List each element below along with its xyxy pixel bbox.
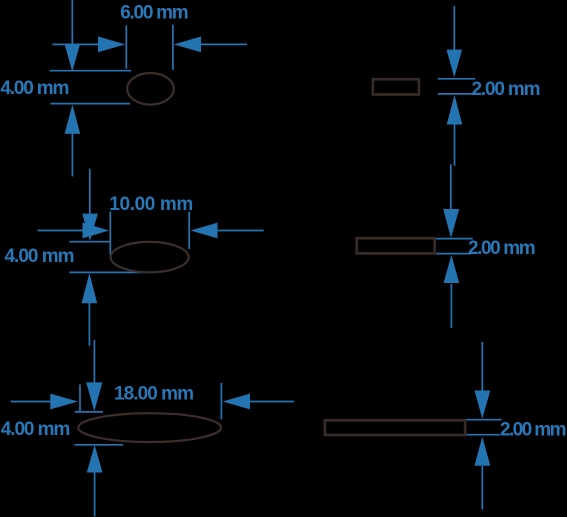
- wire: rect1 2mm bottom extension line: [438, 93, 473, 95]
- wire: row3 18mm dim right tail: [250, 401, 294, 403]
- wire: row1 6mm dim left tail: [53, 43, 99, 45]
- arrow: row2 4mm up arrow: [82, 273, 98, 303]
- rectangle 18mm x 2mm: [325, 420, 465, 435]
- svg-text:2.00 mm: 2.00 mm: [500, 420, 567, 441]
- arrow: row3 18mm left arrowhead: [50, 394, 78, 410]
- wire: row1 6mm right extension line: [172, 25, 174, 70]
- wire: rect2 chain vertical top: [450, 164, 452, 209]
- wire: rect2 2mm bottom extension line: [436, 253, 471, 255]
- rectangle 10mm x 2mm: [357, 238, 435, 253]
- wire: rect1 chain vertical top: [453, 6, 455, 50]
- wire: row3 18mm dim left tail: [11, 401, 51, 403]
- wire: rect1 2mm top extension line: [438, 78, 475, 80]
- arrow: rect2 2mm up arrow: [444, 255, 460, 283]
- arrow: row3 18mm right arrowhead: [223, 394, 250, 410]
- arrow: row1 4mm up arrow: [65, 105, 81, 134]
- ellipse 10mm x 4mm: [111, 242, 189, 272]
- arrow: row2 chain down arrow: [82, 214, 98, 241]
- wire: rect1 chain vertical bottom: [454, 124, 456, 166]
- svg-text:4.00 mm: 4.00 mm: [5, 246, 75, 267]
- arrow: row3 chain down arrow: [86, 382, 102, 411]
- wire: rect2 chain vertical bottom: [450, 284, 452, 328]
- wire: row1 chain vertical top: [71, 0, 73, 44]
- rectangle 6mm x 2mm: [373, 79, 419, 94]
- wire: rect3 2mm top extension line: [466, 419, 501, 421]
- arrow: row1 6mm left arrowhead: [98, 37, 125, 53]
- wire: rect2 2mm top extension line: [436, 238, 473, 240]
- wire: rect3 2mm bottom extension line: [466, 434, 500, 436]
- arrow: row3 4mm up arrow: [87, 445, 103, 473]
- svg-text:4.00 mm: 4.00 mm: [1, 419, 71, 440]
- wire: row3 chain vertical top: [93, 340, 95, 383]
- wire: row3 chain vertical bottom: [94, 473, 96, 517]
- wire: row1 chain vertical bottom: [71, 134, 73, 177]
- arrow: rect2 chain down arrow: [443, 209, 459, 238]
- ellipse 18mm x 4mm: [78, 413, 221, 442]
- wire: row2 10mm dim left tail: [38, 230, 83, 232]
- arrow: rect3 2mm up arrow: [475, 437, 491, 466]
- arrow: row1 chain down arrow: [65, 44, 81, 72]
- wire: row2 10mm dim right tail: [218, 230, 264, 232]
- wire: row2 10mm right extension line: [188, 212, 190, 250]
- wire: row2 chain vertical top: [89, 169, 91, 214]
- arrow: rect3 chain down arrow: [475, 391, 491, 419]
- wire: row2 10mm left extension line: [109, 212, 111, 256]
- wire: rect3 chain vertical bottom: [481, 466, 483, 510]
- arrow: rect1 2mm up arrow: [447, 95, 463, 125]
- arrow: row1 6mm right arrowhead: [174, 37, 201, 53]
- wire: row2 chain vertical bottom: [88, 303, 90, 346]
- wire: row1 6mm left extension line: [125, 25, 127, 68]
- svg-text:6.00 mm: 6.00 mm: [120, 3, 189, 24]
- wire: row1 6mm dim right tail: [201, 43, 247, 45]
- wire: row1 4mm bottom extension line: [51, 103, 131, 105]
- wire: row3 4mm bottom extension line: [74, 444, 123, 446]
- svg-text:18.00 mm: 18.00 mm: [114, 384, 194, 405]
- wire: row1 4mm top extension line: [50, 70, 132, 72]
- svg-text:4.00 mm: 4.00 mm: [0, 78, 69, 99]
- arrow: row2 10mm left arrowhead: [83, 223, 110, 239]
- svg-text:2.00 mm: 2.00 mm: [472, 79, 541, 100]
- wire: rect3 chain vertical top: [481, 342, 483, 391]
- wire: row2 4mm bottom extension line: [69, 271, 147, 273]
- arrow: row2 10mm right arrowhead: [191, 223, 218, 239]
- wire: row3 18mm left extension line: [79, 384, 81, 411]
- ellipse 6mm x 4mm: [127, 73, 174, 105]
- wire: row2 4mm top extension line: [69, 241, 111, 243]
- arrow: rect1 chain down arrow: [447, 50, 463, 78]
- wire: row3 18mm right extension line: [220, 383, 222, 419]
- svg-text:2.00 mm: 2.00 mm: [468, 238, 536, 259]
- svg-text:10.00 mm: 10.00 mm: [109, 194, 193, 215]
- wire: row3 4mm top extension line: [75, 411, 103, 413]
